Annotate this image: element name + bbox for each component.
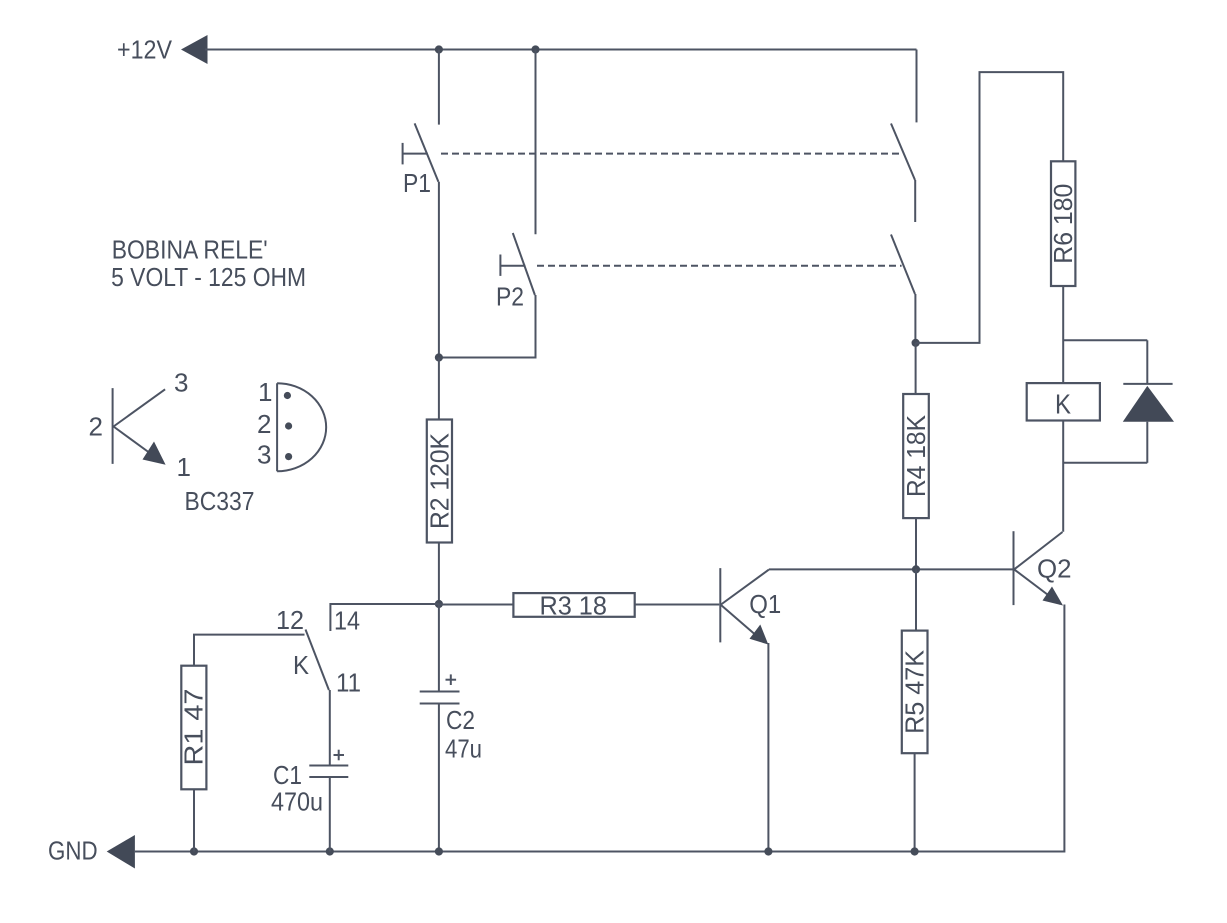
capacitor C2 47u <box>420 674 482 763</box>
svg-text:1: 1 <box>258 377 272 407</box>
node: rail/R1 junction <box>190 847 198 855</box>
svg-text:C2: C2 <box>446 705 475 735</box>
wire: coil to diode top branch <box>1063 339 1147 341</box>
wire: node A to C2 <box>438 604 440 692</box>
svg-text:Q2: Q2 <box>1037 554 1072 584</box>
wire: C2 to ground rail <box>438 704 440 852</box>
GND arrow <box>107 835 135 869</box>
svg-text:K: K <box>293 650 310 680</box>
svg-text:47u: 47u <box>445 734 482 764</box>
wire: node A to contact 14 stub <box>330 604 439 631</box>
relay coil K <box>1027 383 1100 420</box>
wire: Q2 emitter to ground rail corner <box>915 605 1065 852</box>
node: R4/R5/base junction <box>912 565 920 573</box>
wire: coil bottom to Q2 collector <box>1062 421 1064 532</box>
wire: node A to R3 <box>439 604 514 606</box>
svg-text:14: 14 <box>334 606 360 636</box>
resistor R1 47 <box>179 666 209 852</box>
svg-text:11: 11 <box>336 668 361 698</box>
wire: P2 gang dashed link <box>537 265 902 267</box>
wire: P2 pole from rail <box>535 50 537 235</box>
svg-text:P1: P1 <box>403 168 431 198</box>
resistor R5 47K <box>900 569 930 851</box>
wire: R6 to relay branch <box>1062 286 1064 383</box>
svg-text:5 VOLT - 125 OHM: 5 VOLT - 125 OHM <box>111 262 306 292</box>
wire: +12V top rail <box>205 49 917 51</box>
svg-text:+12V: +12V <box>117 35 173 65</box>
wire: ground rail <box>135 851 916 853</box>
svg-text:1: 1 <box>177 452 191 482</box>
wire: P2 to node <box>439 295 536 358</box>
svg-text:R2 120K: R2 120K <box>425 432 455 529</box>
wire: contact 11 to C1 <box>329 690 331 766</box>
svg-text:GND: GND <box>48 835 98 865</box>
svg-text:12: 12 <box>276 605 304 635</box>
wire: junction to R6 branch <box>916 72 1064 343</box>
svg-text:BOBINA RELE': BOBINA RELE' <box>112 235 268 265</box>
svg-text:R6 180: R6 180 <box>1048 184 1078 264</box>
resistor R3 18 <box>513 591 634 621</box>
node: rail/R5 junction <box>911 847 919 855</box>
svg-text:R3 18: R3 18 <box>539 591 607 621</box>
capacitor C1 470u <box>271 750 348 817</box>
wire: C1 to ground rail <box>329 777 331 852</box>
diode D1 <box>1123 340 1174 463</box>
transistor Q1 <box>720 568 781 644</box>
svg-text:R1 47: R1 47 <box>179 689 209 766</box>
node: P1/P2 junction <box>435 353 443 361</box>
switch S2 (ganged with P2) <box>891 235 915 343</box>
switch S1 (ganged with P1) <box>891 50 917 223</box>
wire: P1 to node <box>438 182 440 358</box>
wire: P1 gang dashed link <box>441 153 900 155</box>
svg-text:470u: 470u <box>271 787 323 817</box>
wire: diode bottom branch to coil <box>1063 462 1147 464</box>
wire: R2 to node A <box>438 543 440 605</box>
switch P1 <box>403 123 439 198</box>
resistor R2 120K <box>425 420 455 543</box>
svg-text:C1: C1 <box>273 760 302 790</box>
svg-text:Q1: Q1 <box>749 589 781 619</box>
+12V arrow <box>181 35 208 64</box>
node: rail/C2 junction <box>435 847 443 855</box>
svg-text:R5 47K: R5 47K <box>900 649 930 734</box>
resistor R6 180 <box>1048 161 1078 286</box>
svg-text:3: 3 <box>174 368 188 398</box>
wire: node to R2 <box>438 358 440 420</box>
relay contact K blade <box>306 630 329 691</box>
wire: R1 to contact 12 <box>194 635 305 666</box>
svg-text:P2: P2 <box>496 282 524 312</box>
node: rail/C1 junction <box>326 847 334 855</box>
node: switch chain / R4 / R6 junction <box>912 339 920 347</box>
switch P2 <box>496 233 535 312</box>
svg-text:3: 3 <box>257 440 271 470</box>
resistor R4 18K <box>901 343 931 570</box>
node: rail/P1 junction <box>435 45 443 53</box>
wire: Q1 collector to Q2 base <box>769 568 1013 570</box>
wire: R3 to Q1 base <box>635 604 720 606</box>
svg-text:R4 18K: R4 18K <box>901 414 931 497</box>
transistor BC337 pinout symbol <box>89 368 255 517</box>
node: rail/Q1 emitter junction <box>764 847 772 855</box>
svg-text:K: K <box>1055 389 1071 420</box>
svg-text:BC337: BC337 <box>185 486 255 516</box>
svg-text:2: 2 <box>89 412 103 442</box>
node: rail/P2 junction <box>531 45 539 53</box>
transistor Q2 <box>1014 531 1072 605</box>
node A junction <box>435 600 443 608</box>
svg-text:2: 2 <box>257 409 271 439</box>
wire: P1 pole from rail <box>438 50 440 125</box>
TO-92 package outline <box>257 377 326 471</box>
wire: Q1 emitter to ground rail <box>767 643 769 852</box>
